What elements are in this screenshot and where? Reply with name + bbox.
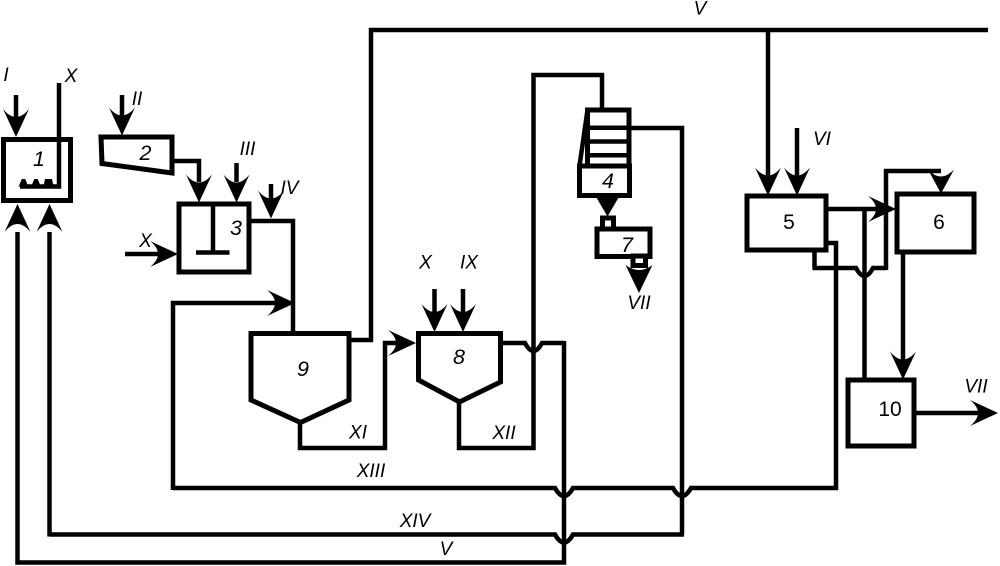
svg-text:XI: XI bbox=[348, 423, 368, 444]
arrowhead IV onto line bbox=[258, 191, 284, 219]
apparatus 10 box bbox=[848, 380, 914, 446]
wire line XII from apparatus 8 bottom to apparatus 4 bbox=[459, 75, 602, 448]
apparatus 4 filter tower bbox=[588, 110, 630, 166]
wire stream X pipe into apparatus 1 bbox=[20, 83, 59, 187]
connector square below apparatus 7 bbox=[633, 256, 646, 266]
wire stream II arrow shaft bbox=[120, 95, 125, 118]
svg-text:XII: XII bbox=[491, 423, 516, 444]
svg-text:XIV: XIV bbox=[399, 511, 433, 532]
sparger arrow 3 bbox=[43, 179, 53, 188]
arrowhead XIV into apparatus 1 bbox=[37, 204, 63, 232]
filter stripe 2 bbox=[588, 139, 630, 144]
wire horizontal with hop over tap line bbox=[813, 268, 887, 276]
arrowhead into apparatus 3 top from apparatus 2 bbox=[186, 175, 212, 203]
svg-text:X: X bbox=[64, 66, 79, 87]
wire apparatus 2 to apparatus 3 bbox=[170, 161, 199, 182]
svg-text:X: X bbox=[418, 253, 433, 274]
svg-text:IX: IX bbox=[460, 253, 479, 274]
svg-text:4: 4 bbox=[602, 169, 614, 193]
wire tap down to apparatus 10 bbox=[862, 209, 867, 380]
svg-text:II: II bbox=[132, 89, 143, 110]
svg-text:7: 7 bbox=[621, 233, 634, 257]
sparger arrow 2 bbox=[31, 179, 41, 188]
wire XIV up to apparatus 1 bbox=[47, 232, 52, 537]
svg-text:XIII: XIII bbox=[356, 461, 386, 482]
svg-text:6: 6 bbox=[933, 211, 945, 234]
wire apparatus 5 to apparatus 6 bbox=[826, 207, 880, 212]
arrowhead into apparatus 6 top bbox=[928, 170, 954, 194]
arrowhead II into apparatus 2 bbox=[109, 108, 135, 136]
connector square into apparatus 7 bbox=[603, 218, 614, 229]
wire line XI from apparatus 9 bottom to apparatus 8 bbox=[300, 343, 396, 448]
arrowhead XI into apparatus 8 bbox=[388, 330, 416, 356]
svg-text:10: 10 bbox=[878, 398, 901, 421]
arrowhead IX into apparatus 8 bbox=[450, 304, 476, 332]
wire stream IX arrow shaft bbox=[461, 289, 466, 314]
apparatus 2 trapezoid bbox=[101, 137, 172, 173]
wire apparatus 10 output VII bbox=[914, 411, 980, 416]
wire top stream V horizontal bbox=[350, 30, 988, 340]
wire stream X arrow into apparatus 8 shaft bbox=[432, 289, 437, 314]
apparatus 1 box bbox=[4, 140, 71, 201]
svg-text:VI: VI bbox=[813, 129, 832, 150]
wire apparatus 5 bottom out bbox=[812, 248, 817, 268]
arrowhead VI into apparatus 5 bbox=[784, 168, 810, 196]
wire stream VI arrow shaft bbox=[795, 128, 800, 180]
arrowhead into apparatus 6 left bbox=[868, 196, 896, 222]
arrowhead X into apparatus 3 left bbox=[150, 241, 178, 267]
arrowhead VII below apparatus 7 bbox=[626, 265, 653, 293]
arrowhead into apparatus 10 top bbox=[890, 352, 916, 380]
svg-text:5: 5 bbox=[783, 211, 795, 234]
arrowhead cake out of apparatus 4 bbox=[594, 193, 622, 217]
svg-text:X: X bbox=[138, 231, 153, 252]
wire stream X into apparatus 3 bbox=[125, 252, 160, 257]
apparatus 4 body bbox=[580, 166, 630, 196]
wire XIII up left side bbox=[173, 303, 276, 490]
wire apparatus 4 filtrate out right bbox=[629, 128, 682, 535]
apparatus 7 box bbox=[597, 229, 650, 257]
wire stream III arrow shaft bbox=[234, 163, 239, 182]
svg-text:1: 1 bbox=[33, 147, 45, 171]
agitator shaft in apparatus 3 bbox=[211, 206, 216, 253]
svg-text:VII: VII bbox=[964, 377, 988, 398]
arrowhead I into apparatus 1 bbox=[3, 109, 29, 137]
wire down right side to bottom V bbox=[18, 232, 565, 563]
wire line XIV with hop bbox=[50, 535, 685, 543]
wire apparatus 3 out to apparatus 9 bbox=[247, 221, 293, 331]
arrowhead XIII into feed line of apparatus 9 bbox=[267, 290, 295, 316]
apparatus 3 box bbox=[179, 204, 249, 272]
svg-text:9: 9 bbox=[297, 357, 309, 381]
arrowhead X into apparatus 8 bbox=[422, 304, 448, 332]
svg-text:III: III bbox=[240, 139, 257, 160]
filter stripe 1 bbox=[588, 125, 630, 130]
apparatus 8 vessel bbox=[419, 334, 501, 403]
wire stream I arrow shaft bbox=[14, 95, 19, 118]
apparatus 9 vessel bbox=[251, 334, 349, 423]
wire stream IV arrow shaft bbox=[269, 184, 274, 200]
arrowhead V into apparatus 5 bbox=[755, 168, 781, 196]
wire branch V down to apparatus 5 bbox=[766, 28, 771, 180]
wire line XIII with hops bbox=[173, 488, 838, 496]
wire apparatus 8 right out with hop over XII riser bbox=[500, 343, 564, 351]
svg-text:IV: IV bbox=[281, 178, 301, 199]
sparger arrow 1 bbox=[18, 179, 28, 188]
apparatus 6 box bbox=[897, 194, 974, 252]
filter diagonal bbox=[580, 110, 588, 166]
filter stripe 3 bbox=[588, 153, 630, 158]
svg-text:I: I bbox=[3, 65, 9, 86]
arrowhead bottom V into apparatus 1 bbox=[5, 204, 31, 232]
agitator bar bbox=[196, 250, 230, 255]
svg-text:8: 8 bbox=[453, 345, 465, 369]
arrowhead VII right bbox=[970, 400, 998, 426]
wire up and over to apparatus 6 top bbox=[886, 171, 941, 270]
svg-text:VII: VII bbox=[627, 293, 651, 314]
arrowhead III into apparatus 3 bbox=[224, 175, 250, 203]
svg-text:3: 3 bbox=[230, 216, 242, 240]
apparatus 5 box bbox=[747, 196, 826, 250]
wire apparatus 6 bottom to apparatus 10 bbox=[901, 252, 906, 362]
wire apparatus 5 right stub bbox=[824, 243, 836, 490]
svg-text:2: 2 bbox=[139, 141, 152, 165]
